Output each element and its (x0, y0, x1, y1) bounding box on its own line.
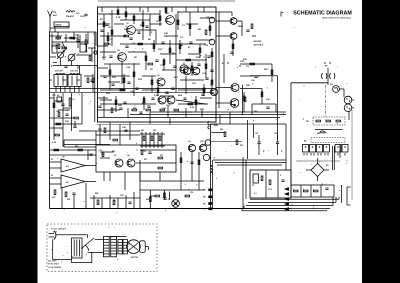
svg-text:BAND: BAND (56, 24, 62, 27)
svg-text:X1: X1 (183, 63, 185, 65)
svg-text:1/2W: 1/2W (214, 125, 219, 127)
svg-text:Q10: Q10 (200, 141, 204, 143)
svg-text:C35: C35 (143, 151, 146, 153)
svg-text:10K: 10K (164, 33, 168, 35)
svg-text:TO AC OUTLET: TO AC OUTLET (51, 228, 66, 231)
svg-text:Q6: Q6 (157, 75, 160, 77)
svg-text:C41: C41 (274, 132, 277, 135)
svg-text:R50: R50 (220, 129, 223, 131)
svg-text:AM TRK-S: AM TRK-S (254, 43, 264, 46)
svg-text:C40: C40 (255, 132, 258, 135)
svg-text:56K: 56K (118, 105, 122, 107)
svg-text:R41: R41 (141, 129, 144, 132)
svg-text:OSC 478: OSC 478 (70, 69, 78, 72)
svg-text:ANT 478: ANT 478 (55, 69, 63, 72)
svg-text:C21: C21 (99, 150, 102, 152)
svg-text:1: 1 (293, 189, 294, 191)
svg-text:VR1: VR1 (52, 197, 56, 199)
svg-text:Q8: Q8 (127, 155, 130, 157)
svg-text:1K: 1K (150, 69, 153, 71)
svg-text:FM ANT: FM ANT (66, 15, 75, 18)
svg-text:60 Hz ONLY: 60 Hz ONLY (48, 264, 59, 266)
svg-text:C50: C50 (190, 192, 193, 194)
svg-text:R61: R61 (95, 193, 98, 195)
svg-text:4.7K: 4.7K (116, 16, 121, 19)
svg-text:220: 220 (160, 155, 163, 157)
svg-text:3: 3 (313, 189, 314, 191)
svg-text:Q5: Q5 (117, 50, 120, 52)
svg-text:OHM: OHM (80, 16, 85, 18)
svg-text:2: 2 (303, 189, 304, 191)
svg-text:R44: R44 (75, 145, 78, 148)
svg-text:MOTOR: MOTOR (131, 257, 139, 259)
svg-text:Q3: Q3 (126, 23, 129, 25)
svg-text:FM: FM (53, 12, 56, 14)
svg-text:Q7: Q7 (114, 155, 117, 157)
svg-text:4.7K: 4.7K (52, 141, 57, 144)
svg-text:AC 117V: AC 117V (48, 260, 57, 263)
svg-text:Q9: Q9 (188, 141, 191, 143)
svg-text:R9: R9 (57, 95, 59, 97)
svg-text:AM ANT: AM ANT (254, 40, 263, 43)
svg-text:R33: R33 (112, 151, 115, 153)
svg-text:C31: C31 (246, 66, 249, 68)
svg-text:U.S.A. MODEL: U.S.A. MODEL (48, 266, 62, 269)
svg-text:C8: C8 (72, 99, 74, 101)
svg-text:1/2: 1/2 (62, 157, 65, 159)
svg-text:R42: R42 (153, 129, 156, 132)
svg-text:R31: R31 (144, 159, 147, 161)
svg-text:C52: C52 (120, 195, 123, 197)
svg-text:R60: R60 (146, 199, 149, 201)
svg-text:R51: R51 (240, 145, 243, 147)
svg-text:SCHEMATIC DIAGRAM: SCHEMATIC DIAGRAM (293, 10, 352, 16)
svg-text:6.3: 6.3 (254, 193, 257, 195)
svg-text:Q1: Q1 (52, 44, 55, 46)
svg-text:35V: 35V (158, 49, 162, 51)
svg-text:(SEE SERVICE MANUAL): (SEE SERVICE MANUAL) (322, 16, 352, 19)
svg-text:C30: C30 (251, 80, 254, 82)
svg-text:6BM8: 6BM8 (238, 26, 243, 28)
